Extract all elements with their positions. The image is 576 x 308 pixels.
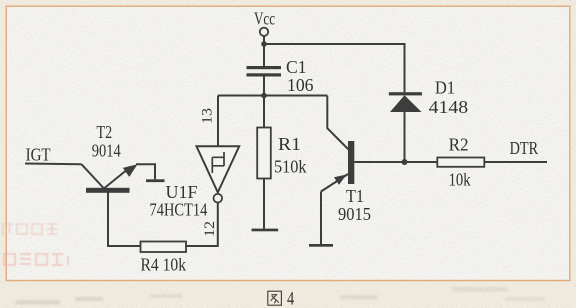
wire inverter pin 12 to R4 xyxy=(186,203,218,247)
svg-text:12: 12 xyxy=(202,221,218,237)
R4 label xyxy=(141,255,187,275)
wire C1 to R1 xyxy=(263,77,265,128)
svg-text:13: 13 xyxy=(200,108,216,124)
pin label 12 xyxy=(202,221,218,237)
svg-text:Vcc: Vcc xyxy=(254,9,275,29)
wire Vcc rail to D1 xyxy=(264,44,405,92)
wire R2 to DTR xyxy=(484,161,547,163)
Vcc terminal xyxy=(260,28,268,36)
Vcc label xyxy=(254,9,275,29)
wire T1 base to R2 xyxy=(354,161,437,163)
svg-text:T2: T2 xyxy=(97,122,113,142)
svg-text:DTR: DTR xyxy=(510,138,538,158)
svg-text:4: 4 xyxy=(287,289,294,308)
svg-text:510k: 510k xyxy=(274,157,307,177)
capacitor C1 xyxy=(247,66,282,77)
junction dot xyxy=(261,93,267,99)
wire IGT to T2 base xyxy=(25,163,82,166)
junction dot xyxy=(261,41,267,47)
resistor R2 xyxy=(437,158,484,167)
T1 label xyxy=(338,186,371,224)
transistor T2 xyxy=(82,164,138,193)
R2 label xyxy=(449,135,471,190)
wire node bus to T1 collector branch xyxy=(218,95,327,97)
svg-text:D1: D1 xyxy=(435,78,455,98)
wire R4 to T2 collector xyxy=(108,192,141,246)
svg-text:R1: R1 xyxy=(278,134,301,154)
ground T1 xyxy=(309,244,333,247)
junction dot xyxy=(402,159,408,165)
svg-text:10k: 10k xyxy=(449,170,471,190)
svg-text:IGT: IGT xyxy=(26,144,51,164)
node DTR xyxy=(510,138,538,158)
wire D1 anode to node xyxy=(404,112,406,162)
ground T2 emitter xyxy=(146,179,165,182)
svg-text:74HCT14: 74HCT14 xyxy=(150,200,208,220)
wire T2 emitter xyxy=(136,164,155,179)
svg-text:9015: 9015 xyxy=(338,204,371,224)
U1F label xyxy=(150,182,208,220)
svg-text:C1: C1 xyxy=(286,57,307,77)
ground R1 xyxy=(252,229,279,232)
svg-text:4148: 4148 xyxy=(429,97,469,117)
C1 value label xyxy=(286,57,314,95)
svg-text:T1: T1 xyxy=(346,186,364,206)
wire Vcc to C1 xyxy=(263,36,265,66)
D1 label xyxy=(429,78,469,118)
wire T1 emitter to ground xyxy=(320,192,322,245)
svg-text:106: 106 xyxy=(287,75,314,95)
node IGT xyxy=(26,144,51,164)
resistor R4 xyxy=(141,242,187,253)
svg-text:9014: 9014 xyxy=(92,141,121,161)
op-amp U1F inverter 74HCT14 xyxy=(197,146,240,202)
wire inverter pin 13 xyxy=(217,96,219,147)
diode D1 xyxy=(389,92,422,112)
resistor R1 xyxy=(257,128,271,179)
T2 label xyxy=(92,122,121,161)
transistor T1 xyxy=(321,141,354,192)
figure caption 图4 xyxy=(268,289,294,308)
wire T1 collector xyxy=(327,96,348,150)
svg-text:R4 10k: R4 10k xyxy=(141,255,187,275)
decorative print bleed (back page) xyxy=(3,223,68,265)
pin label 13 xyxy=(200,108,216,124)
svg-text:R2: R2 xyxy=(449,135,469,155)
R1 label xyxy=(274,134,307,177)
wire R1 to ground xyxy=(263,179,265,229)
